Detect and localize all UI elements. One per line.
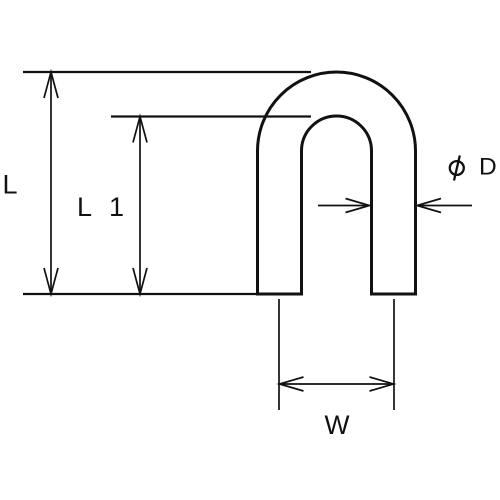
staple left leg end cap <box>256 293 303 296</box>
W arrowhead right <box>370 377 394 391</box>
dimension L arrowhead top <box>44 72 58 98</box>
phi D right arrow line <box>417 205 472 207</box>
top tangent extension line <box>23 71 311 73</box>
L1 tangent extension line <box>111 115 311 117</box>
W dimension double arrow line <box>280 383 394 385</box>
label phi symbol <box>450 161 464 175</box>
W arrowhead left <box>280 377 304 391</box>
dimension L1 arrowhead bottom <box>133 268 147 294</box>
dimension L1 arrowhead top <box>133 117 147 143</box>
dimension L arrowhead bottom <box>44 268 58 294</box>
W left extension line <box>278 299 280 410</box>
bottom baseline extension line <box>23 293 257 295</box>
dimension L vertical line <box>50 72 52 294</box>
svg-text:L: L <box>3 169 18 199</box>
svg-text:D: D <box>479 154 497 181</box>
staple right leg end cap <box>370 293 417 296</box>
staple inner outline <box>302 116 372 294</box>
staple outer outline <box>258 72 416 294</box>
svg-text:1: 1 <box>109 192 124 222</box>
svg-text:W: W <box>325 410 350 440</box>
phi D left arrowhead <box>346 199 370 213</box>
phi D right arrowhead <box>417 199 441 213</box>
svg-text:L: L <box>77 192 92 222</box>
dimension L1 vertical line <box>139 117 141 295</box>
phi D left arrow line <box>318 205 370 207</box>
W right extension line <box>393 299 395 410</box>
